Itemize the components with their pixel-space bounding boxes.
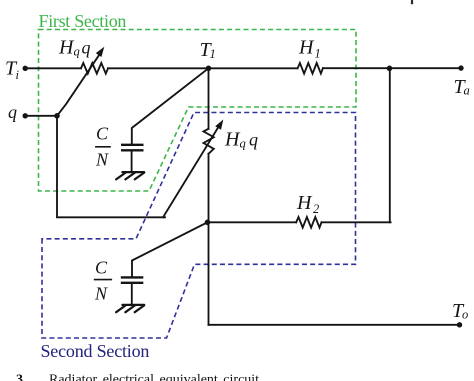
svg-text:C: C — [95, 258, 108, 278]
svg-text:q: q — [74, 45, 80, 59]
svg-text:N: N — [94, 284, 108, 304]
svg-text:3.: 3. — [16, 372, 27, 381]
svg-text:Second Section: Second Section — [41, 341, 150, 361]
svg-text:1: 1 — [315, 47, 321, 61]
svg-text:q: q — [249, 130, 258, 150]
svg-text:2: 2 — [313, 202, 319, 216]
svg-text:H: H — [224, 129, 241, 151]
svg-text:H: H — [298, 37, 315, 59]
svg-text:H: H — [296, 192, 313, 214]
svg-text:Radiator electrical equivalent: Radiator electrical equivalent circuit. — [49, 372, 263, 381]
svg-text:q: q — [8, 102, 17, 122]
svg-text:a: a — [464, 84, 470, 98]
svg-text:o: o — [462, 308, 468, 322]
svg-text:N: N — [95, 150, 109, 170]
svg-text:i: i — [16, 68, 20, 82]
svg-text:q: q — [82, 38, 91, 58]
svg-text:First Section: First Section — [39, 11, 127, 31]
svg-text:H: H — [58, 37, 75, 59]
svg-text:1: 1 — [210, 47, 216, 61]
svg-text:C: C — [96, 124, 109, 144]
svg-text:q: q — [240, 137, 246, 151]
